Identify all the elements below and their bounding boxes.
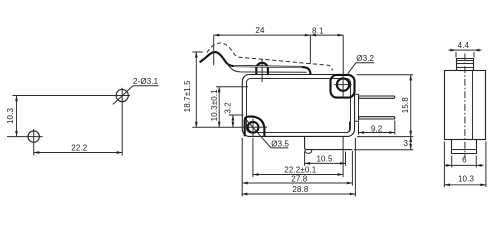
svg-text:10.3±0.1: 10.3±0.1 — [210, 89, 219, 121]
svg-text:10.3: 10.3 — [458, 174, 474, 183]
svg-text:3: 3 — [404, 139, 409, 148]
svg-text:6: 6 — [462, 155, 467, 164]
svg-text:28.8: 28.8 — [292, 185, 308, 194]
svg-text:9.2: 9.2 — [371, 124, 383, 133]
svg-text:15.8: 15.8 — [401, 97, 410, 113]
svg-text:27.8: 27.8 — [291, 174, 307, 183]
svg-text:18.7±1.5: 18.7±1.5 — [183, 80, 192, 112]
svg-text:2-Ø3.1: 2-Ø3.1 — [133, 77, 159, 86]
svg-text:22.2: 22.2 — [71, 143, 87, 152]
svg-text:Ø3.2: Ø3.2 — [356, 54, 374, 63]
svg-text:8.1: 8.1 — [312, 26, 324, 35]
svg-text:24: 24 — [255, 26, 265, 35]
svg-text:4.4: 4.4 — [458, 41, 470, 50]
svg-text:10.3: 10.3 — [6, 108, 15, 124]
svg-text:3.2: 3.2 — [224, 102, 233, 114]
svg-text:10.5: 10.5 — [316, 155, 332, 164]
svg-text:Ø3.5: Ø3.5 — [271, 139, 289, 148]
